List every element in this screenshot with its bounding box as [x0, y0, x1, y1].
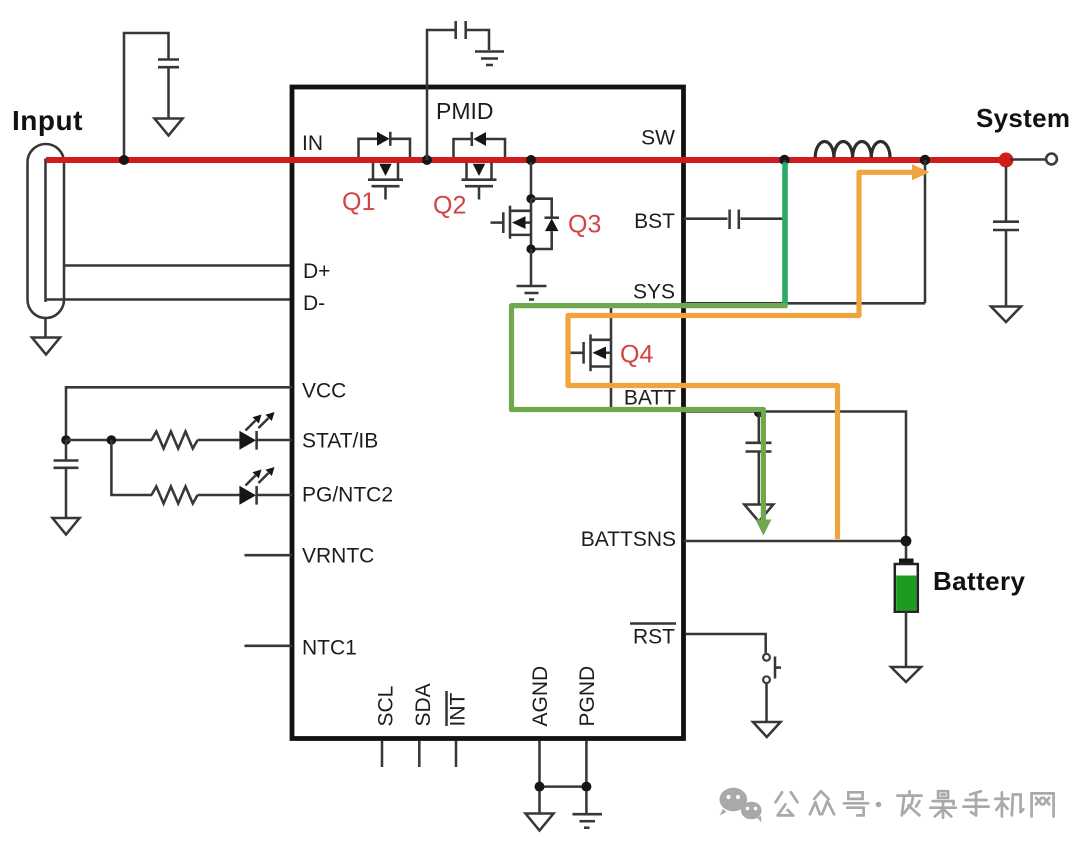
op-amp: charger IC body U1	[292, 87, 684, 739]
ground (battery)	[891, 667, 921, 682]
transistor Q4 MOSFET	[566, 334, 611, 371]
svg-text:D+: D+	[303, 260, 330, 283]
node VCC-cap junction	[61, 435, 71, 445]
ground (input cap)	[155, 119, 183, 136]
node Q3 source	[526, 244, 535, 253]
transistor Q3 MOSFET	[491, 199, 532, 249]
node inductor output junction	[920, 155, 930, 165]
ground (BATT cap)	[744, 505, 773, 522]
svg-text:Q2: Q2	[433, 192, 466, 220]
LED D2 (PG)	[239, 467, 292, 505]
pin label NTC1	[302, 637, 357, 660]
pin label VCC	[302, 380, 346, 403]
wire SW node vertical	[784, 160, 787, 303]
wire VBUS power rail (red)	[46, 157, 1006, 163]
pin label VRNTC	[302, 545, 374, 568]
Q3 label	[568, 211, 601, 239]
svg-text:NTC1: NTC1	[302, 637, 357, 660]
svg-text:SDA: SDA	[412, 683, 435, 726]
pin SDA stub	[418, 741, 421, 767]
pin label D+	[303, 260, 330, 283]
pin label BST	[634, 210, 675, 233]
wire AGND stub	[538, 741, 541, 787]
ground (system cap)	[991, 307, 1021, 323]
wire NTC1 stub	[245, 645, 293, 648]
pin label SCL	[375, 686, 398, 727]
node Q3 drain	[526, 194, 535, 203]
Input label	[12, 105, 83, 136]
resistor R2 (PG/NTC2)	[152, 487, 198, 504]
svg-text:BATT: BATT	[624, 387, 676, 410]
pin label IN	[302, 132, 323, 155]
watermark text 枭	[930, 791, 955, 817]
wire R2 to LED2	[198, 494, 240, 497]
Q4 label	[620, 341, 653, 369]
node System terminal (red)	[999, 153, 1014, 168]
svg-text:SYS: SYS	[633, 281, 675, 304]
svg-text:Battery: Battery	[933, 566, 1026, 596]
wire PGND stub	[585, 741, 588, 787]
watermark text 号	[844, 792, 868, 815]
switch SW1 (reset pushbutton)	[763, 654, 781, 683]
pin label PGND	[576, 666, 599, 727]
node PMID junction	[422, 155, 432, 165]
watermark text 公	[776, 792, 798, 815]
capacitor C5 (system)	[993, 167, 1019, 306]
svg-text:D-: D-	[303, 292, 325, 315]
wire Q3 drain	[530, 162, 533, 199]
svg-text:VCC: VCC	[302, 380, 346, 403]
wire to system terminal	[1010, 158, 1046, 161]
wire STAT/IB left	[66, 439, 152, 442]
watermark text 网	[1032, 793, 1054, 816]
terminal circle (System)	[1046, 154, 1057, 165]
capacitor C4 (BST)	[730, 210, 739, 230]
wire highlight: olive SYS-BATT path with arrow	[512, 306, 788, 536]
wire Q4 drain-source bus	[610, 304, 613, 412]
svg-text:SW: SW	[641, 127, 675, 150]
svg-text:Q4: Q4	[620, 341, 653, 369]
transistor Q2 body diode	[454, 132, 506, 157]
pin label SW	[641, 127, 675, 150]
pin label BATTSNS	[581, 528, 676, 551]
capacitor C6 (BATT)	[746, 413, 772, 504]
ground (Q3, chassis)	[517, 286, 547, 300]
USB input connector J1	[28, 144, 65, 318]
wire switch to ground	[765, 683, 768, 721]
svg-text:PGND: PGND	[576, 666, 599, 727]
wire highlight: orange charge path with arrow	[568, 164, 930, 539]
wire D+	[64, 264, 292, 267]
LED D1 (STAT)	[239, 412, 292, 450]
wire BATT pin line	[684, 412, 907, 542]
ground (input connector)	[32, 318, 60, 355]
svg-text:Q3: Q3	[568, 211, 601, 239]
Q1 label	[342, 188, 375, 216]
node PGND	[581, 782, 591, 792]
wire RST	[686, 634, 766, 654]
ground (PGND, chassis)	[573, 791, 603, 828]
wire BATTSNS pin line	[684, 540, 907, 543]
svg-text:BATTSNS: BATTSNS	[581, 528, 676, 551]
wire highlight: green SW-to-SYS segment	[782, 163, 788, 307]
svg-text:PMID: PMID	[436, 98, 494, 124]
node STAT-PG tap	[107, 435, 117, 445]
wire PG tap down	[111, 440, 152, 495]
svg-text:PG/NTC2: PG/NTC2	[302, 484, 393, 507]
wire D-	[46, 298, 293, 301]
transistor Q2 MOSFET	[462, 163, 497, 200]
pin label RST (with overline)	[630, 624, 676, 649]
wire VCC	[66, 387, 292, 440]
watermark text 手	[963, 791, 988, 815]
svg-text:RST: RST	[633, 626, 675, 649]
diode Q3 body	[531, 199, 559, 249]
wire inductor output vertical	[924, 160, 927, 303]
capacitor C1 (input)	[158, 60, 179, 119]
svg-text:System: System	[976, 103, 1070, 133]
node input cap junction	[119, 155, 129, 165]
inductor L1	[815, 142, 890, 158]
svg-text:AGND: AGND	[529, 666, 552, 727]
wire VRNTC stub	[245, 554, 293, 557]
pin label SYS	[633, 281, 675, 304]
ground (RST switch)	[753, 722, 781, 737]
pin label AGND	[529, 666, 552, 727]
wire SYS pin line	[684, 302, 926, 305]
wire PMID branch	[427, 30, 455, 160]
svg-text:SCL: SCL	[375, 686, 398, 727]
wire Q3 source to ground	[530, 249, 533, 285]
ground (AGND)	[526, 791, 554, 831]
pin label BATT	[624, 387, 676, 410]
wire R1 to LED1	[198, 439, 240, 442]
capacitor C3 (VCC)	[54, 440, 79, 518]
wire input cap branch	[124, 33, 169, 160]
ground (VCC cap)	[53, 518, 80, 535]
node SW junction	[779, 155, 789, 165]
watermark text 众	[810, 791, 834, 814]
pin label D-	[303, 292, 325, 315]
ground (PMID cap, chassis)	[475, 52, 504, 66]
svg-text:BST: BST	[634, 210, 675, 233]
wire AGND-PGND tie	[540, 785, 587, 788]
svg-text:INT: INT	[447, 693, 470, 727]
node battery junction	[901, 536, 912, 547]
resistor R1 (STAT/IB)	[152, 432, 198, 449]
watermark wechat icon	[719, 788, 761, 823]
svg-text:Input: Input	[12, 105, 83, 136]
pin label SDA	[412, 683, 435, 726]
watermark text dot	[876, 802, 882, 808]
battery BT1	[895, 546, 918, 667]
pin label STAT/IB	[302, 430, 378, 453]
svg-text:STAT/IB: STAT/IB	[302, 430, 378, 453]
System label	[976, 103, 1070, 133]
node Q3 drain junction	[526, 155, 536, 165]
Q2 label	[433, 192, 466, 220]
node AGND	[535, 782, 545, 792]
transistor Q1 body diode	[359, 132, 411, 157]
svg-text:VRNTC: VRNTC	[302, 545, 374, 568]
Battery label	[933, 566, 1026, 596]
transistor Q1 MOSFET	[368, 163, 403, 200]
watermark text 机	[995, 792, 1023, 816]
svg-text:Q1: Q1	[342, 188, 375, 216]
pin INT stub	[455, 741, 458, 767]
capacitor C2 (PMID)	[456, 21, 489, 50]
node BATT cap junction	[754, 408, 764, 418]
PMID label	[436, 98, 494, 124]
pin label INT (with overline)	[447, 691, 470, 727]
pin SCL stub	[381, 741, 384, 767]
wire BST pin line	[684, 217, 785, 220]
pin label PG/NTC2	[302, 484, 393, 507]
svg-text:IN: IN	[302, 132, 323, 155]
watermark text 夜	[897, 791, 921, 815]
